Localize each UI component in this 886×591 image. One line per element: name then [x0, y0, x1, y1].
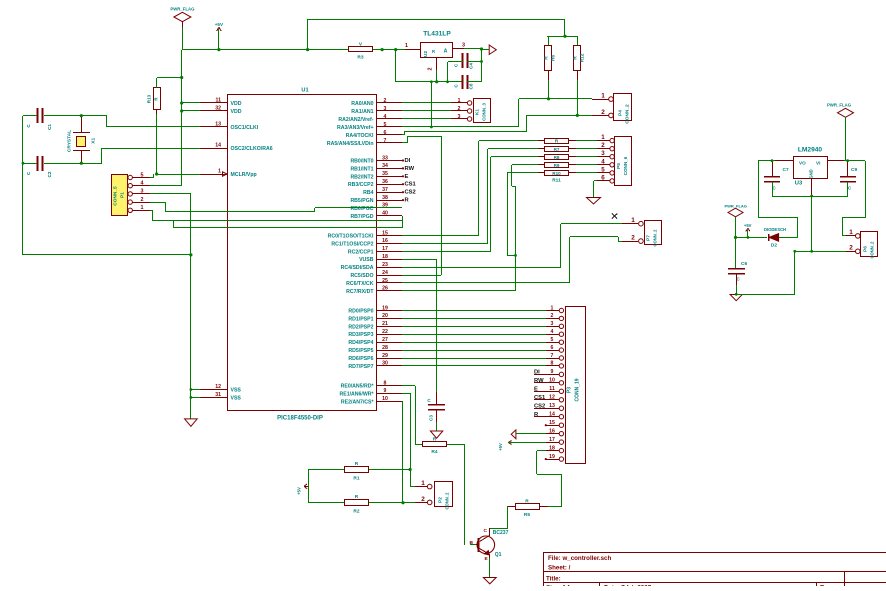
- svg-text:1: 1: [458, 98, 461, 104]
- svg-text:VO: VO: [799, 161, 806, 166]
- svg-text:R6: R6: [551, 55, 557, 61]
- svg-text:28: 28: [382, 345, 388, 351]
- svg-text:3: 3: [601, 150, 605, 157]
- svg-text:8: 8: [384, 380, 387, 386]
- svg-text:RC0/T1OSO/T1CKI: RC0/T1OSO/T1CKI: [328, 234, 374, 240]
- svg-text:2: 2: [421, 496, 425, 503]
- svg-text:35: 35: [382, 171, 388, 177]
- svg-text:12: 12: [215, 384, 221, 390]
- svg-text:20: 20: [382, 313, 388, 319]
- svg-text:P2: P2: [438, 497, 444, 503]
- svg-text:P7: P7: [646, 235, 652, 241]
- svg-text:R11: R11: [552, 178, 561, 184]
- svg-text:B: B: [470, 540, 474, 546]
- svg-text:9: 9: [384, 388, 387, 394]
- svg-text:RC5/SDO: RC5/SDO: [350, 273, 373, 279]
- svg-text:X1: X1: [91, 138, 97, 144]
- svg-text:4: 4: [141, 181, 144, 187]
- svg-text:U3: U3: [795, 181, 803, 187]
- svg-text:CS2: CS2: [405, 190, 416, 196]
- svg-text:22: 22: [382, 329, 388, 335]
- svg-text:1: 1: [849, 229, 853, 236]
- svg-text:RW: RW: [534, 378, 544, 384]
- svg-text:RA2/AN2/Vref-: RA2/AN2/Vref-: [338, 117, 373, 123]
- svg-text:RC2/CCP1: RC2/CCP1: [348, 249, 374, 255]
- svg-text:37: 37: [382, 187, 388, 193]
- svg-text:18: 18: [382, 254, 388, 260]
- svg-text:P1: P1: [120, 192, 126, 198]
- svg-text:RA3/AN3/Vref+: RA3/AN3/Vref+: [337, 125, 373, 131]
- svg-text:33: 33: [382, 155, 388, 161]
- svg-text:C7: C7: [783, 167, 789, 173]
- svg-text:R: R: [433, 437, 437, 443]
- svg-text:R8: R8: [554, 155, 560, 160]
- svg-text:6: 6: [551, 345, 554, 351]
- svg-text:CONN_2: CONN_2: [653, 229, 658, 247]
- svg-text:File: w_controller.sch: File: w_controller.sch: [548, 555, 611, 562]
- svg-text:RA5/AN4/SS/LVDin: RA5/AN4/SS/LVDin: [327, 141, 374, 147]
- svg-text:1: 1: [218, 169, 221, 175]
- svg-text:Sheet: /: Sheet: /: [548, 565, 571, 572]
- svg-text:+5V: +5V: [215, 22, 224, 27]
- svg-text:CONN_2: CONN_2: [870, 241, 875, 259]
- svg-text:25: 25: [382, 278, 388, 284]
- svg-text:VDD: VDD: [231, 109, 242, 115]
- svg-text:RD7/PSP7: RD7/PSP7: [348, 364, 373, 370]
- svg-text:R: R: [555, 139, 559, 145]
- svg-text:PIC18F4550-DIP: PIC18F4550-DIP: [277, 416, 323, 422]
- svg-text:PWR_FLAG: PWR_FLAG: [827, 103, 852, 108]
- svg-text:2: 2: [384, 98, 387, 104]
- svg-text:C4: C4: [469, 63, 474, 69]
- svg-text:+5V: +5V: [744, 223, 752, 228]
- svg-text:11: 11: [549, 386, 555, 392]
- svg-text:RE2/AN7/CS*: RE2/AN7/CS*: [341, 399, 375, 405]
- svg-text:C6: C6: [741, 261, 747, 267]
- svg-text:6: 6: [601, 174, 605, 181]
- svg-text:R7: R7: [554, 147, 560, 152]
- svg-text:15: 15: [549, 420, 555, 426]
- svg-text:CONN_2: CONN_2: [625, 104, 631, 124]
- svg-text:Title:: Title:: [546, 576, 561, 583]
- svg-text:17: 17: [382, 246, 388, 252]
- svg-text:D2: D2: [771, 243, 777, 249]
- svg-text:DI: DI: [405, 158, 411, 164]
- svg-text:VI: VI: [816, 161, 820, 166]
- svg-text:CONN_19: CONN_19: [575, 378, 581, 401]
- svg-text:CONN_3: CONN_3: [482, 103, 487, 121]
- svg-text:18: 18: [549, 445, 555, 451]
- svg-text:2: 2: [141, 197, 144, 203]
- svg-text:R1: R1: [353, 476, 359, 482]
- svg-text:1: 1: [631, 217, 635, 224]
- svg-text:RA4/TOCKI: RA4/TOCKI: [346, 133, 374, 139]
- svg-text:K1: K1: [475, 109, 481, 115]
- svg-text:R5: R5: [524, 512, 530, 518]
- svg-text:2: 2: [458, 106, 461, 112]
- svg-text:RC7/RX/DT: RC7/RX/DT: [346, 289, 374, 295]
- svg-text:5: 5: [384, 122, 387, 128]
- svg-text:3: 3: [462, 43, 465, 49]
- svg-text:40: 40: [382, 211, 388, 217]
- svg-text:34: 34: [382, 163, 388, 169]
- svg-text:RB1/INT1: RB1/INT1: [350, 166, 373, 172]
- svg-text:RC1/T1OSI/CCP2: RC1/T1OSI/CCP2: [331, 241, 373, 247]
- svg-text:R4: R4: [431, 449, 437, 455]
- svg-text:RB2/INT2: RB2/INT2: [350, 174, 373, 180]
- svg-text:A: A: [444, 49, 448, 55]
- svg-text:31: 31: [215, 392, 221, 398]
- svg-text:2: 2: [551, 313, 554, 319]
- svg-text:3: 3: [384, 106, 387, 112]
- svg-text:RB0/INT0: RB0/INT0: [350, 159, 373, 165]
- svg-text:12: 12: [549, 395, 555, 401]
- svg-text:24: 24: [382, 270, 388, 276]
- svg-text:10: 10: [382, 396, 388, 402]
- svg-text:C1: C1: [47, 124, 52, 130]
- svg-text:38: 38: [382, 195, 388, 201]
- svg-text:DI: DI: [534, 370, 540, 376]
- svg-text:19: 19: [549, 454, 555, 460]
- svg-text:7: 7: [384, 138, 387, 144]
- svg-text:+5V: +5V: [498, 443, 503, 451]
- svg-text:R12: R12: [580, 53, 586, 62]
- svg-text:R: R: [355, 494, 359, 500]
- svg-text:RB3/CCP2: RB3/CCP2: [348, 182, 374, 188]
- svg-text:RD0/PSP0: RD0/PSP0: [348, 309, 373, 315]
- svg-text:LM2940: LM2940: [798, 147, 823, 154]
- svg-text:U1: U1: [301, 88, 308, 94]
- svg-text:GND: GND: [809, 169, 814, 178]
- svg-text:RE1/AN6/WR*: RE1/AN6/WR*: [339, 391, 374, 397]
- svg-text:27: 27: [382, 337, 388, 343]
- svg-text:C: C: [484, 528, 488, 534]
- svg-text:C9: C9: [851, 167, 857, 173]
- svg-text:C3: C3: [429, 415, 434, 421]
- svg-text:CONN_2: CONN_2: [445, 492, 450, 510]
- svg-text:14: 14: [549, 412, 555, 418]
- svg-text:R3: R3: [357, 55, 363, 61]
- svg-text:2: 2: [849, 245, 853, 252]
- svg-text:3: 3: [458, 114, 461, 120]
- svg-text:TL431LP: TL431LP: [423, 31, 451, 38]
- svg-text:RC6/TX/CK: RC6/TX/CK: [346, 281, 374, 287]
- svg-text:R: R: [525, 499, 529, 505]
- svg-text:2: 2: [631, 235, 635, 242]
- svg-text:14: 14: [215, 143, 221, 149]
- svg-text:RD3/PSP3: RD3/PSP3: [348, 332, 373, 338]
- svg-text:RD6/PSP6: RD6/PSP6: [348, 356, 373, 362]
- svg-text:23: 23: [382, 262, 388, 268]
- svg-text:RD2/PSP2: RD2/PSP2: [348, 324, 373, 330]
- svg-text:6: 6: [384, 130, 387, 136]
- svg-text:C2: C2: [47, 171, 52, 177]
- svg-text:2: 2: [428, 68, 434, 71]
- svg-text:R: R: [432, 49, 435, 54]
- svg-text:17: 17: [549, 437, 555, 443]
- svg-text:P3: P3: [567, 387, 573, 393]
- svg-text:E: E: [534, 387, 538, 393]
- svg-text:1: 1: [421, 480, 425, 487]
- svg-text:CONN_5: CONN_5: [113, 186, 119, 206]
- svg-text:5: 5: [141, 172, 144, 178]
- svg-text:VSS: VSS: [231, 395, 242, 401]
- svg-text:VUSB: VUSB: [359, 257, 374, 263]
- svg-text:1: 1: [601, 134, 605, 141]
- svg-text:19: 19: [382, 305, 388, 311]
- svg-text:R13: R13: [147, 94, 152, 103]
- svg-text:13: 13: [215, 122, 221, 128]
- svg-text:2: 2: [601, 142, 605, 149]
- svg-text:36: 36: [382, 179, 388, 185]
- svg-text:MCLR/Vpp: MCLR/Vpp: [231, 172, 257, 178]
- svg-text:1: 1: [405, 43, 408, 49]
- svg-text:P6: P6: [863, 246, 869, 252]
- svg-text:1: 1: [141, 205, 144, 211]
- svg-text:CS1: CS1: [405, 182, 417, 188]
- svg-text:32: 32: [215, 106, 221, 112]
- svg-text:RC4/SDI/SDA: RC4/SDI/SDA: [341, 265, 374, 271]
- svg-text:CS1: CS1: [534, 395, 546, 401]
- svg-text:9: 9: [551, 369, 554, 375]
- svg-text:4: 4: [384, 114, 387, 120]
- svg-text:11: 11: [216, 98, 222, 104]
- svg-text:RB5/PGN: RB5/PGN: [350, 198, 373, 204]
- svg-text:7: 7: [551, 353, 554, 359]
- svg-text:8: 8: [551, 361, 554, 367]
- svg-text:OSC1/CLKI: OSC1/CLKI: [231, 125, 259, 131]
- svg-text:2: 2: [601, 109, 605, 116]
- svg-text:16: 16: [382, 238, 388, 244]
- svg-text:VSS: VSS: [231, 388, 242, 394]
- svg-text:16: 16: [549, 428, 555, 434]
- svg-text:R: R: [572, 56, 578, 60]
- svg-text:29: 29: [382, 353, 388, 359]
- svg-text:10: 10: [549, 378, 555, 384]
- svg-text:RD1/PSP1: RD1/PSP1: [348, 316, 373, 322]
- svg-text:4: 4: [551, 329, 554, 335]
- svg-text:PWR_FLAG: PWR_FLAG: [170, 7, 195, 12]
- svg-text:OSC2/CLKO/RA6: OSC2/CLKO/RA6: [231, 146, 273, 152]
- svg-text:3: 3: [141, 189, 144, 195]
- svg-text:RB6/PGC: RB6/PGC: [350, 206, 373, 212]
- svg-text:P5: P5: [616, 163, 622, 169]
- svg-text:RD4/PSP4: RD4/PSP4: [348, 340, 373, 346]
- svg-text:CRYSTAL: CRYSTAL: [67, 130, 73, 152]
- svg-text:3: 3: [551, 321, 554, 327]
- svg-text:30: 30: [382, 361, 388, 367]
- svg-text:U2: U2: [423, 51, 429, 57]
- svg-text:5: 5: [551, 337, 554, 343]
- svg-text:5: 5: [601, 166, 605, 173]
- svg-text:1: 1: [551, 305, 554, 311]
- svg-text:RE0/AN5/RD*: RE0/AN5/RD*: [341, 384, 375, 390]
- svg-text:R10: R10: [552, 171, 561, 176]
- svg-text:RB7/PGD: RB7/PGD: [350, 214, 373, 220]
- svg-text:P4: P4: [618, 110, 624, 116]
- svg-text:R: R: [544, 56, 550, 60]
- svg-text:VDD: VDD: [231, 101, 242, 107]
- svg-text:+5V: +5V: [297, 487, 302, 495]
- svg-text:R9: R9: [554, 163, 560, 168]
- svg-text:CS2: CS2: [534, 404, 545, 410]
- svg-text:RB4: RB4: [363, 190, 373, 196]
- svg-text:DIODESCH: DIODESCH: [764, 227, 786, 232]
- svg-text:R: R: [355, 461, 359, 467]
- svg-text:RW: RW: [405, 166, 415, 172]
- svg-text:RA1/AN1: RA1/AN1: [351, 109, 373, 115]
- svg-text:1: 1: [601, 93, 605, 100]
- svg-text:15: 15: [382, 230, 388, 236]
- svg-text:E: E: [405, 174, 409, 180]
- svg-text:BC237: BC237: [493, 530, 509, 536]
- svg-text:4: 4: [601, 158, 605, 165]
- svg-text:RA0/AN0: RA0/AN0: [351, 101, 373, 107]
- svg-text:R2: R2: [353, 509, 359, 515]
- svg-text:13: 13: [549, 403, 555, 409]
- svg-text:Q1: Q1: [495, 552, 502, 558]
- svg-text:26: 26: [382, 286, 388, 292]
- svg-text:C8: C8: [469, 83, 474, 89]
- svg-text:CONN_6: CONN_6: [623, 156, 628, 175]
- svg-text:RD5/PSP5: RD5/PSP5: [348, 348, 373, 354]
- svg-text:21: 21: [382, 321, 388, 327]
